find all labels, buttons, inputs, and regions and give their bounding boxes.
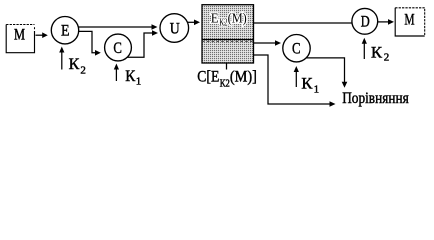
wire C1 to U (up path) with arrowhead bbox=[128, 30, 159, 57]
svg-text:С: С bbox=[292, 41, 301, 58]
K2 key arrow into D bbox=[362, 38, 367, 59]
svg-text:2: 2 bbox=[80, 64, 86, 76]
wire E to C1 (down path) with arrowhead bbox=[79, 31, 101, 55]
MAC block C1 (circle) bbox=[105, 34, 132, 61]
wire C2 down to comparison with arrowhead bbox=[307, 58, 348, 88]
svg-text:D: D bbox=[361, 14, 370, 31]
svg-text:К2: К2 bbox=[219, 17, 227, 28]
wire D to M box with arrowhead bbox=[378, 19, 394, 25]
wire block to D (ciphertext line) bbox=[254, 22, 353, 24]
label C[EK2(M)] (below box) bbox=[197, 69, 257, 90]
wire M to E with arrowhead bbox=[36, 32, 48, 38]
label K1 (under C2) bbox=[301, 76, 319, 96]
box M (left, source message) bbox=[6, 25, 34, 53]
box M (right, recovered message) bbox=[395, 8, 425, 36]
svg-text:Порівняння: Порівняння bbox=[342, 90, 409, 107]
cipher block E (circle) bbox=[51, 17, 78, 44]
svg-text:1: 1 bbox=[314, 83, 320, 95]
svg-text:Е: Е bbox=[61, 23, 70, 40]
svg-text:К: К bbox=[69, 56, 80, 73]
svg-text:(М): (М) bbox=[228, 11, 247, 26]
K2 key arrow into E bbox=[59, 47, 64, 70]
wire E to U (top) with arrowhead bbox=[78, 24, 157, 30]
divider between ciphertext and MAC parts bbox=[202, 39, 254, 41]
transmitted block EK2(M)+MAC (stippled box) bbox=[202, 5, 254, 63]
pointer line from box bottom to label bbox=[226, 63, 228, 70]
K1 key arrow into C2 bbox=[294, 66, 299, 87]
svg-text:К: К bbox=[125, 68, 135, 85]
svg-text:С: С bbox=[113, 40, 122, 57]
svg-text:С[Е: С[Е bbox=[197, 69, 219, 86]
decryptor D (circle) bbox=[352, 8, 378, 34]
svg-text:U: U bbox=[170, 21, 180, 38]
combiner U (circle) bbox=[160, 14, 189, 43]
wire block to C2 with arrowhead bbox=[254, 40, 282, 46]
label K2 (under E) bbox=[69, 56, 86, 76]
svg-text:М: М bbox=[14, 27, 25, 44]
K1 key arrow into C1 bbox=[114, 64, 119, 82]
wire U to transmitted block with arrowhead bbox=[187, 20, 200, 26]
svg-text:К: К bbox=[301, 76, 312, 93]
svg-text:К2: К2 bbox=[220, 77, 230, 89]
wire block MAC down to comparison with arrowhead bbox=[254, 55, 336, 107]
label K1 (under C1) bbox=[125, 68, 141, 88]
svg-text:К: К bbox=[371, 45, 382, 62]
svg-text:(М)]: (М)] bbox=[230, 69, 257, 86]
svg-text:1: 1 bbox=[136, 76, 142, 88]
MAC block C2 (circle) bbox=[283, 35, 310, 62]
label K2 (under D) bbox=[371, 45, 389, 64]
svg-text:М: М bbox=[404, 11, 414, 28]
svg-text:2: 2 bbox=[384, 52, 390, 64]
svg-text:Е: Е bbox=[211, 11, 219, 26]
